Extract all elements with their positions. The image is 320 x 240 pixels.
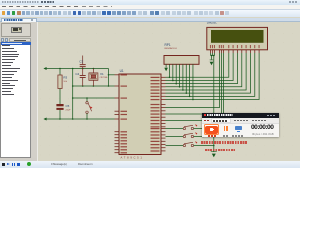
ground (below LCD): [210, 56, 214, 66]
svg-text:C4: C4: [75, 72, 79, 76]
node junctions bottom rail: [59, 118, 61, 120]
node (108.5,86): [108, 85, 110, 87]
wire vertical joining nets: [72, 69, 74, 120]
menu bar: [0, 5, 300, 10]
push button K2: [166, 124, 204, 136]
wire bottom-left rail (EA net): [46, 118, 115, 120]
MCU pin name labels: [121, 74, 160, 153]
crystal X1: [89, 69, 108, 87]
tab bar: [0, 18, 300, 23]
svg-text:RESPACK-8: RESPACK-8: [165, 47, 178, 50]
wires RP1 pins to P0 bus: [169, 64, 194, 100]
svg-text:C3: C3: [79, 60, 83, 64]
capacitor C5 (electrolytic): [56, 104, 71, 119]
toolbar: [0, 9, 300, 17]
left panel: [0, 22, 38, 161]
red annotation line 2: [205, 149, 235, 151]
LCD pin labels: [210, 45, 260, 48]
svg-text:R3: R3: [63, 76, 67, 80]
ground (left, XTAL rail): [43, 67, 46, 70]
monitor icon: [235, 126, 242, 131]
MCU left pin stubs: [115, 75, 120, 153]
scrollbar strip: [32, 42, 38, 158]
node (108.5,74.8): [108, 74, 110, 76]
svg-text:LM016L: LM016L: [207, 22, 218, 25]
MCU right pin stubs: [161, 77, 166, 151]
pause: [224, 126, 226, 132]
IC U1 (AT89C51 microcontroller): [119, 69, 161, 160]
title bar: [0, 0, 300, 5]
svg-text:22uF: 22uF: [66, 109, 72, 111]
node junctions: [59, 68, 61, 70]
LCD pin stubs: [211, 50, 260, 53]
svg-text:U1: U1: [120, 69, 124, 73]
svg-text:C5: C5: [66, 104, 70, 108]
svg-text:X1: X1: [100, 72, 104, 76]
push button K4: [166, 141, 215, 146]
wire R3 top stub: [59, 69, 61, 76]
LCD LM016L: [207, 21, 268, 50]
ground (bottom, button common): [211, 152, 217, 158]
wires LCD RS/RW/E to MCU P2: [166, 53, 224, 120]
panel/schematic divider: [37, 22, 38, 161]
resistor pack RP1: [164, 43, 199, 65]
svg-text:CRYSTAL: CRYSTAL: [100, 76, 108, 79]
schematic background: [38, 22, 300, 161]
wire crystal right vertical: [108, 69, 110, 87]
wire XTAL1 rail: [46, 68, 109, 70]
record button: [204, 124, 219, 135]
wire XTAL2 net: [73, 85, 115, 87]
wire RST net: [73, 97, 115, 99]
device list: [0, 42, 31, 158]
push button K1 (reset): [86, 98, 93, 119]
grid dots: [40, 24, 293, 155]
wires LCD D0-D7 to MCU P0 bus: [166, 53, 260, 99]
resistor R3: [58, 75, 68, 89]
svg-text:RP1: RP1: [165, 43, 171, 47]
P L buttons + DEVICES header: [1, 38, 4, 41]
svg-text:AT89C51: AT89C51: [121, 155, 144, 159]
timer: [251, 124, 277, 132]
wire VEE long vertical: [213, 56, 215, 152]
status bar: [0, 161, 300, 168]
overview window: [1, 23, 31, 37]
push button K3: [166, 132, 215, 137]
ground (bottom-left rail): [43, 118, 46, 121]
recorder popup window: [202, 113, 279, 138]
red annotation line 1: [201, 141, 248, 143]
capacitor C4: [75, 69, 85, 87]
wire VSS/VDD/VEE join: [211, 53, 215, 56]
wire XTAL1 stub: [109, 74, 115, 76]
wire R3 to C5: [59, 89, 61, 105]
capacitor C3: [79, 56, 85, 69]
ground (RP1 common pin): [164, 64, 168, 71]
